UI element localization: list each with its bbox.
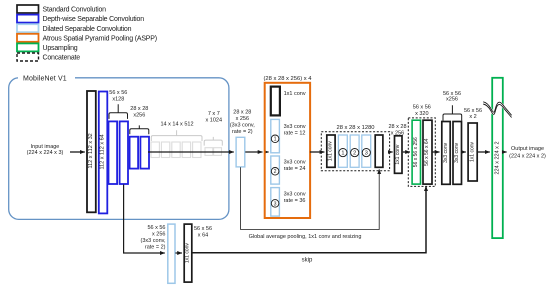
svg-text:MobileNet V1: MobileNet V1 [23, 76, 67, 83]
concat 1x1 conv layer (black) [327, 135, 335, 167]
svg-text:x 256: x 256 [152, 231, 165, 237]
brace over 3x3 conv rects [443, 105, 462, 121]
conv layer 56x56 #2 (blue) [120, 121, 128, 184]
ASPP container (orange) [265, 83, 310, 218]
upsampled layer 56x56x256 (green) [412, 120, 420, 184]
wire: global average pooling path [241, 167, 380, 229]
svg-text:rate = 2): rate = 2) [232, 129, 253, 135]
svg-text:(3x3 conv,: (3x3 conv, [141, 238, 166, 244]
svg-text:(3x3 conv,: (3x3 conv, [230, 122, 255, 128]
concat pooled-feature rect (black) [375, 135, 383, 167]
ASPP branch 1 (light blue) [271, 119, 280, 152]
svg-text:112 x 112 x 64: 112 x 112 x 64 [100, 134, 106, 169]
concat branch rect 2 (light blue) [350, 135, 359, 167]
svg-text:1: 1 [274, 137, 277, 143]
svg-text:1x1 conv: 1x1 conv [470, 141, 476, 162]
conv layer 112x112x32 (standard, black) [87, 91, 96, 212]
wire: to final 1x1 conv [462, 151, 466, 153]
svg-text:112 x 112 x 32: 112 x 112 x 32 [88, 133, 94, 168]
svg-text:3x3 conv: 3x3 conv [284, 191, 306, 197]
legend swatch: dilated separable convolution [17, 24, 39, 32]
brace over 28x28 rects [130, 125, 149, 134]
svg-text:1x1 conv: 1x1 conv [185, 243, 191, 264]
svg-text:Depth-wise Separable Convoluti: Depth-wise Separable Convolution [43, 16, 145, 23]
wire: input arrow [70, 151, 85, 153]
wire: skip branch down from 56x56 layer [124, 185, 165, 254]
node circle 3 [362, 149, 370, 157]
svg-text:x 1024: x 1024 [206, 118, 223, 124]
wire: to upsampled output [478, 151, 490, 153]
gray conv layers 7x7x1024 [205, 148, 222, 156]
svg-text:1x1 conv: 1x1 conv [328, 141, 334, 162]
svg-text:Atrous Spatial Pyramid Pooling: Atrous Spatial Pyramid Pooling (ASPP) [43, 35, 157, 42]
1x1 conv layer 28x28x256 (black) [395, 136, 403, 174]
svg-text:1: 1 [341, 151, 344, 157]
svg-text:3x3 conv: 3x3 conv [284, 159, 306, 165]
legend swatch: concatenate [17, 53, 39, 61]
legend swatch: depth-wise separable convolution [17, 15, 39, 23]
svg-text:3: 3 [365, 151, 368, 157]
svg-text:rate = 24: rate = 24 [284, 166, 306, 172]
svg-text:224 x 224 x 2: 224 x 224 x 2 [494, 141, 500, 174]
svg-text:3: 3 [274, 201, 277, 207]
svg-text:7 x 7: 7 x 7 [208, 111, 220, 117]
svg-text:rate = 12: rate = 12 [284, 130, 306, 136]
gray brace over 7x7 rects [204, 137, 222, 146]
svg-text:x 320: x 320 [415, 111, 428, 117]
svg-text:Output image: Output image [511, 146, 544, 152]
node circle 3 [271, 200, 279, 208]
conv layer 28x28 #2 (blue) [140, 137, 149, 169]
svg-text:56 x 56: 56 x 56 [109, 90, 127, 96]
wire: to 3x3 convs [433, 151, 440, 153]
concat branch rect 1 (light blue) [338, 135, 347, 167]
break squiggle over green layer [483, 102, 511, 118]
svg-text:28 x 28: 28 x 28 [130, 106, 148, 112]
svg-text:2: 2 [274, 169, 277, 175]
svg-text:(224 x 224 x 2): (224 x 224 x 2) [509, 153, 546, 159]
svg-text:x256: x256 [446, 97, 458, 103]
svg-text:Input image: Input image [31, 144, 60, 150]
ASPP branch 2 (light blue) [271, 156, 280, 184]
svg-text:56 x 56: 56 x 56 [413, 104, 431, 110]
svg-text:Upsampling: Upsampling [43, 45, 78, 52]
node circle 1 [339, 149, 347, 157]
wire: skip connection to decoder [192, 186, 426, 253]
svg-text:56 x 56: 56 x 56 [147, 225, 165, 231]
svg-text:Dilated Separable Convolution: Dilated Separable Convolution [43, 26, 132, 33]
svg-text:x 64: x 64 [198, 233, 208, 239]
node circle 2 [271, 168, 279, 176]
svg-text:x 2: x 2 [469, 114, 476, 120]
concatenate box 56x56x320 (dashed) [408, 118, 435, 186]
node circle 1 [271, 135, 279, 143]
svg-text:3x3 conv: 3x3 conv [454, 142, 460, 163]
svg-text:28 x 28: 28 x 28 [233, 109, 251, 115]
svg-text:Concatenate: Concatenate [43, 55, 81, 62]
conv layer 28x28 #1 (blue) [130, 137, 139, 169]
svg-text:x256: x256 [133, 112, 145, 118]
wire: concat box to 1x1 conv [390, 151, 393, 153]
svg-text:x128: x128 [112, 96, 124, 102]
ASPP branch 3 (light blue) [271, 188, 280, 217]
svg-text:Global average pooling, 1x1 co: Global average pooling, 1x1 conv and res… [249, 234, 362, 240]
node circle 2 [351, 149, 359, 157]
svg-text:28 x 28 x 1280: 28 x 28 x 1280 [336, 125, 374, 131]
svg-text:28 x 28: 28 x 28 [388, 124, 406, 130]
legend swatch: upsampling [17, 43, 39, 51]
svg-text:1x1 conv: 1x1 conv [395, 144, 401, 165]
ASPP 1x1 conv layer (black) [271, 87, 280, 116]
conv layer 112x112x64 (depth-wise, blue) [99, 92, 108, 214]
svg-text:rate = 2): rate = 2) [145, 244, 166, 250]
svg-text:(28 x 28 x 256) x 4: (28 x 28 x 256) x 4 [263, 76, 312, 82]
wire: to 1x1 conv [175, 252, 182, 254]
legend swatch: ASPP [17, 34, 39, 42]
svg-text:56 x 56: 56 x 56 [194, 226, 212, 232]
svg-text:Standard Convolution: Standard Convolution [43, 7, 107, 14]
dilated conv layer 56x56x256 (light blue) [168, 224, 175, 283]
MobileNet V1 container box [9, 78, 229, 220]
wire: to ASPP [245, 151, 262, 153]
brace over 56x56 rects [109, 104, 128, 119]
final 1x1 conv layer (black) [468, 123, 477, 181]
concat branch rect 3 (light blue) [362, 135, 371, 167]
svg-text:1x1 conv: 1x1 conv [284, 91, 306, 97]
concatenate box 28x28x1280 (dashed) [321, 132, 389, 171]
svg-text:3x3 conv: 3x3 conv [284, 124, 306, 130]
svg-text:skip: skip [302, 258, 313, 264]
svg-text:56 x 56 x 64: 56 x 56 x 64 [424, 138, 430, 165]
svg-text:14 x 14 x 512: 14 x 14 x 512 [160, 121, 193, 127]
main wire: through gray stage [148, 151, 234, 153]
dilated conv layer 28x28x256 (light blue) [236, 137, 245, 167]
svg-text:(224 x 224 x 3): (224 x 224 x 3) [27, 150, 64, 156]
svg-text:2: 2 [353, 151, 356, 157]
3x3 conv layer #2 (black) [453, 122, 462, 185]
svg-text:3x3 conv: 3x3 conv [443, 142, 449, 163]
1x1 conv layer (black, skip path) [184, 224, 192, 282]
legend swatch: standard convolution [17, 5, 39, 13]
wire: ASPP to concat box [310, 151, 325, 153]
skip layer 56x56x64 (black) [423, 120, 432, 184]
svg-text:x 256: x 256 [236, 116, 249, 122]
svg-text:56 x 56 x 256: 56 x 56 x 256 [413, 137, 419, 167]
wire: to upsample concat box [403, 151, 410, 153]
gray brace over 14x14 rects [151, 130, 202, 141]
3x3 conv layer #1 (black) [442, 122, 450, 185]
gray conv layers 14x14x512 [151, 142, 201, 158]
conv layer 56x56 #1 (blue) [109, 121, 118, 184]
wire: output arrow [503, 151, 506, 153]
wire: inside ASPP to first rect [265, 151, 269, 153]
upsampled output layer 224x224x2 (green) [492, 78, 503, 238]
svg-text:rate = 36: rate = 36 [284, 198, 306, 204]
